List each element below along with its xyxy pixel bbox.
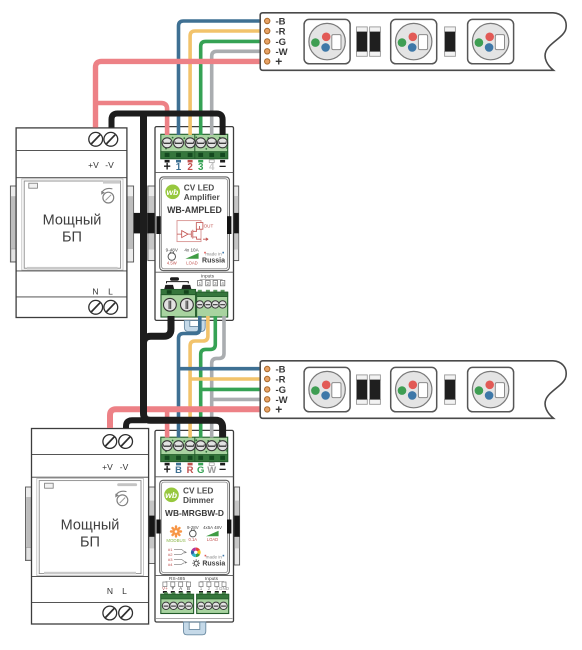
svg-text:+V: +V <box>102 462 113 472</box>
svg-text:4.5W: 4.5W <box>167 261 177 266</box>
U1 terminal screws + 1 2 3 4 - <box>162 138 172 148</box>
PSU1 right DIN clip tab <box>127 186 134 262</box>
PSU1 LED window <box>29 183 38 188</box>
PSU2 L screw terminal <box>119 606 133 620</box>
PSU2 bottom vent bar <box>44 572 136 574</box>
U2 channel diagram <box>168 547 173 567</box>
svg-text:WB-MRGBW-D: WB-MRGBW-D <box>165 508 224 518</box>
U1 output terminal block X1 <box>161 134 228 158</box>
svg-text:4: 4 <box>209 162 215 173</box>
svg-text:wb: wb <box>166 187 178 197</box>
CV LED Dimmer module WB-MRGBW-D U2 <box>155 430 234 634</box>
svg-text:+: + <box>163 160 170 174</box>
U2 MODBUS icon <box>171 527 181 537</box>
svg-text:3: 3 <box>198 162 204 173</box>
svg-text:9-48V: 9-48V <box>166 248 179 253</box>
U2 bottom tick marks <box>163 591 226 593</box>
U2 blue DIN release clip <box>184 622 206 635</box>
svg-text:#4: #4 <box>168 562 173 567</box>
svg-text:W: W <box>207 465 216 476</box>
svg-text:made in: made in <box>205 251 222 256</box>
wire -G green channel: strip1 pad to amplifier terminal 3 <box>201 41 260 135</box>
U2 wb logo <box>164 488 179 503</box>
PSU2 N screw terminal <box>103 606 117 620</box>
PSU1 left DIN clip tab <box>10 186 17 262</box>
svg-text:G: G <box>197 465 204 476</box>
wire GND black: PSU1 -V to amplifier - terminal <box>112 114 223 136</box>
U1 blue DIN release clip <box>184 320 205 331</box>
svg-text:OUT: OUT <box>204 223 214 228</box>
U1 red schematic icon <box>177 221 208 242</box>
svg-text:wb: wb <box>165 490 177 500</box>
svg-text:–: – <box>219 159 226 173</box>
svg-text:1: 1 <box>176 162 182 173</box>
U1 bottom section marks <box>170 277 179 280</box>
PSU2 +V screw terminal <box>103 435 117 449</box>
wire +V red drop: to dimmer + terminal <box>165 409 170 437</box>
PSU1 potentiometer <box>103 192 114 203</box>
svg-text:1: 1 <box>200 586 203 591</box>
rail column between PSU2 and dimmer <box>149 487 155 564</box>
svg-text:LOAD: LOAD <box>186 261 197 266</box>
PSU1 top bar <box>103 181 120 184</box>
svg-text:Amplifier: Amplifier <box>184 192 221 202</box>
svg-text:4x5A 48V: 4x5A 48V <box>203 525 222 530</box>
wire yellow channel branch: to strip2 -R pad <box>190 377 260 381</box>
svg-text:Мощный: Мощный <box>43 213 102 229</box>
PSU2 top bar <box>117 483 137 486</box>
U2 inputs terminal block X3 <box>199 592 203 594</box>
U1 front label panel <box>160 177 230 271</box>
power supply PSU1 "Мощный БП" <box>16 128 127 318</box>
svg-text:+V: +V <box>88 160 99 170</box>
U2 brightness icon <box>192 559 200 567</box>
svg-text:L: L <box>108 286 113 296</box>
wire +V red: strip1 plus pad to PSU1 +V <box>96 61 261 127</box>
PSU1 body <box>22 179 123 270</box>
svg-text:9-28V: 9-28V <box>187 525 199 530</box>
U2 wire colour ticks <box>165 463 170 466</box>
svg-text:GND: GND <box>219 586 230 591</box>
svg-text:3: 3 <box>215 586 218 591</box>
svg-text:Inputs: Inputs <box>201 274 215 280</box>
U2 RS-485 terminal block X2 <box>164 592 168 594</box>
amplifier left rail column <box>148 186 155 261</box>
wire white channel: amplifier input 4 to dimmer W terminal <box>212 316 224 438</box>
wire GND black bus: vertical trunk <box>140 114 147 414</box>
U2 front label panel <box>160 480 230 574</box>
svg-text:R: R <box>187 465 194 476</box>
U2 terminal screws + B R G W - <box>162 441 172 451</box>
svg-text:БП: БП <box>62 230 82 246</box>
wire yellow channel: amplifier input 2 to dimmer R terminal <box>190 316 208 438</box>
PSU2 -V screw terminal <box>119 435 133 449</box>
power supply PSU2 "Мощный БП" <box>32 429 149 625</box>
PSU1 +V screw terminal <box>89 132 103 146</box>
svg-text:Мощный: Мощный <box>61 518 120 534</box>
svg-text:V+: V+ <box>162 586 168 591</box>
svg-text:CV LED: CV LED <box>184 182 214 192</box>
PSU1 -V screw terminal <box>104 132 118 146</box>
U2 output terminal block X1 <box>161 437 228 461</box>
U1 input terminal block X3 <box>198 290 202 293</box>
svg-text:MODBUS: MODBUS <box>166 538 185 543</box>
svg-text:2: 2 <box>208 586 211 591</box>
wire +V red: PSU2 +V to strip2 plus pad <box>110 409 260 428</box>
wire +V red branch: PSU1 +V to amplifier + terminal <box>96 103 168 135</box>
svg-text:-V: -V <box>120 462 129 472</box>
U1 wb logo <box>165 185 180 200</box>
svg-text:N: N <box>107 586 113 596</box>
svg-text:Russia: Russia <box>202 257 225 264</box>
wire GND black: trunk to dimmer - terminal <box>144 410 223 438</box>
PSU2 LED window <box>45 483 54 488</box>
wire GND black: amplifier power input to trunk <box>144 316 172 350</box>
DIN rail dark band between PSU1 and amplifier <box>134 213 155 234</box>
svg-text:B: B <box>187 586 190 591</box>
svg-text:2: 2 <box>187 162 193 173</box>
PSU2 potentiometer <box>117 495 128 506</box>
wire green channel branch: to strip2 -G pad <box>201 388 260 392</box>
wire -R yellow channel: strip1 pad to amplifier terminal 2 <box>190 31 260 135</box>
PSU2 body <box>37 478 144 575</box>
wire -W white channel: strip1 pad to amplifier terminal 4 <box>212 51 260 135</box>
wire GND black: PSU2 -V to bus <box>126 420 146 428</box>
svg-text:0.1A: 0.1A <box>188 537 197 542</box>
svg-text:N: N <box>92 286 98 296</box>
PSU1 N screw terminal <box>89 300 103 314</box>
svg-text:CV LED: CV LED <box>183 485 213 495</box>
svg-text:B: B <box>175 465 182 476</box>
U2 colour wheel <box>191 548 201 558</box>
wire green channel: amplifier input 3 to dimmer G terminal <box>201 316 216 438</box>
amplifier right rail column <box>233 186 239 261</box>
CV LED Amplifier module WB-AMPLED U1 <box>155 127 234 332</box>
svg-text:Russia: Russia <box>202 561 225 568</box>
LED strip 2 (bottom) with RGBW LEDs and resistors <box>260 361 566 419</box>
svg-text:L: L <box>122 586 127 596</box>
svg-text:-V: -V <box>105 160 114 170</box>
U1 wire colour ticks <box>165 160 170 163</box>
svg-text:WB-AMPLED: WB-AMPLED <box>167 205 222 215</box>
wire blue channel branch: to strip2 -B pad <box>179 367 261 371</box>
svg-text:made in: made in <box>206 554 223 559</box>
PSU1 L screw terminal <box>104 300 118 314</box>
svg-text:Dimmer: Dimmer <box>183 495 215 505</box>
dimmer right rail column <box>234 487 239 565</box>
PSU1 bottom vent bar <box>27 267 118 269</box>
svg-text:–: – <box>219 462 226 476</box>
wire blue channel: amplifier input 1 to dimmer B terminal <box>179 316 200 438</box>
svg-text:БП: БП <box>80 535 100 551</box>
svg-text:4x 10A: 4x 10A <box>184 248 199 253</box>
LED strip 1 (top) with RGBW LEDs and resistors <box>260 13 566 71</box>
wire white channel branch: to strip2 -W pad <box>212 398 260 402</box>
svg-text:LOAD: LOAD <box>207 537 218 542</box>
U2 DIN clip ears <box>156 520 160 534</box>
svg-text:+: + <box>163 463 170 477</box>
U1 DIN clip ears <box>156 216 160 234</box>
PSU2 left DIN clip tab <box>26 487 32 561</box>
U1 power input terminal block X2 <box>161 289 196 294</box>
wire -B blue channel: strip1 pad to amplifier terminal 1 <box>179 21 261 135</box>
